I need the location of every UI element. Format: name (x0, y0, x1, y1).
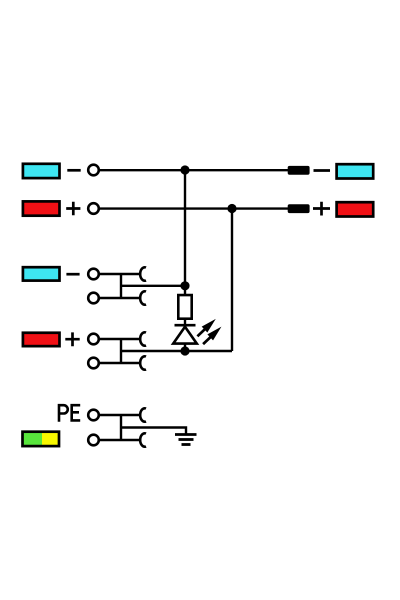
push-in contact bar row1 right (288, 166, 310, 175)
minus label top-left (67, 169, 80, 172)
plus label row2-left (66, 202, 80, 216)
terminal marker L+ right (red) (337, 202, 374, 216)
ground symbol (175, 435, 197, 445)
wire minus-B (98, 297, 140, 299)
contact hook plus-B (140, 356, 146, 369)
wire plus-B (98, 362, 140, 364)
terminal circle plus-A (88, 334, 99, 345)
bus bar plus group (120, 339, 122, 363)
terminal circle PE-A (88, 410, 99, 421)
terminal marker minus feed-through (cyan) (23, 267, 60, 280)
terminal marker L- right (cyan) (337, 164, 374, 178)
LED triangle (173, 327, 197, 344)
resistor R (178, 295, 191, 319)
wire minus-A (98, 273, 140, 275)
terminal marker L+ left (red) (23, 201, 60, 215)
terminal marker plus feed-through (red) (23, 333, 60, 346)
wire PE to ground (121, 428, 186, 434)
minus label mid (66, 273, 79, 276)
wire minus group to LED (121, 285, 185, 287)
wire: LED branch vertical from row1 (184, 170, 186, 294)
plus label row2-right (313, 202, 330, 216)
terminal marker L- left (cyan) (23, 164, 60, 178)
wire LED return vertical (231, 209, 233, 352)
bus bar minus group (120, 274, 122, 298)
terminal circle plus-B (88, 358, 99, 369)
LED light arrow 2 (200, 324, 224, 347)
terminal circle PE-B (88, 435, 99, 446)
wire PE-A (98, 414, 140, 416)
junction node LED bottom (180, 346, 189, 355)
plus label mid (65, 332, 79, 346)
junction node resistor top (180, 281, 189, 290)
junction node row2 / LED return branch (227, 204, 236, 213)
wire resistor to LED (184, 320, 186, 351)
terminal circle minus-A (88, 269, 99, 280)
minus label top-right (314, 169, 331, 172)
contact hook minus-A (140, 267, 146, 280)
LED cathode bar (175, 324, 196, 327)
wire row1 (98, 169, 288, 171)
wire row2 (98, 207, 288, 209)
terminal circle row2 (88, 203, 99, 214)
terminal circle row1 (88, 165, 99, 176)
terminal marker PE (green/yellow) (23, 432, 60, 446)
bus bar PE group (120, 415, 122, 440)
contact hook PE-B (140, 433, 146, 446)
LED light arrow 1 (195, 316, 219, 339)
contact hook plus-A (140, 332, 146, 345)
junction node row1 / LED branch (180, 165, 189, 174)
push-in contact bar row2 right (288, 204, 310, 213)
wire LED bottom horizontal (121, 350, 232, 352)
contact hook minus-B (140, 291, 146, 304)
wire plus-A (98, 338, 140, 340)
terminal circle minus-B (88, 293, 99, 304)
PE label (59, 405, 80, 422)
contact hook PE-A (140, 408, 146, 421)
wire PE-B (98, 439, 140, 441)
